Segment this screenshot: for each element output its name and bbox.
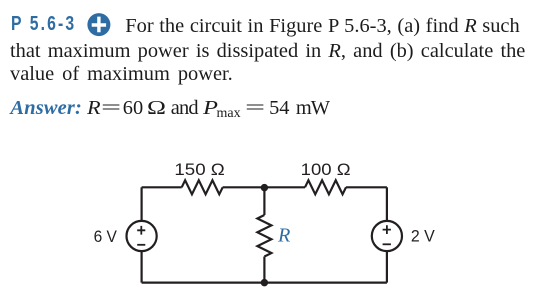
text line 2 <box>10 41 525 61</box>
node junction bottom <box>261 279 269 287</box>
wire bottom <box>142 282 387 284</box>
label R <box>277 225 290 247</box>
text line 3 <box>10 64 233 84</box>
label 150 ohm <box>174 160 224 179</box>
node junction top <box>261 184 269 192</box>
wire left rail bottom <box>141 251 143 283</box>
resistor R <box>257 215 271 257</box>
wire top left segment <box>142 186 182 188</box>
wire middle rail bottom <box>263 257 265 283</box>
label 2 V <box>411 227 436 246</box>
svg-text:100 Ω: 100 Ω <box>301 160 351 179</box>
svg-text:6 V: 6 V <box>94 227 118 246</box>
wire top right segment <box>346 186 387 188</box>
circuit figure <box>80 148 460 296</box>
wire right rail top <box>386 187 388 221</box>
label 100 ohm <box>301 160 351 179</box>
heading P 5.6-3 <box>11 14 76 34</box>
wire top middle segment <box>223 186 305 188</box>
voltage source V2 2V <box>372 221 402 251</box>
resistor R1 150 ohm <box>182 180 223 194</box>
answer line <box>0 98 538 124</box>
svg-text:2 V: 2 V <box>411 227 436 246</box>
label 6 V <box>94 227 118 246</box>
resistor R2 100 ohm <box>305 180 346 194</box>
wire right rail bottom <box>386 251 388 283</box>
wire left rail top <box>141 187 143 221</box>
text line 1 <box>125 16 519 36</box>
voltage source V1 6V <box>127 221 157 251</box>
svg-text:150 Ω: 150 Ω <box>174 160 224 179</box>
svg-text:R: R <box>277 225 290 247</box>
plus icon <box>87 13 111 37</box>
wire middle rail top <box>263 187 265 215</box>
